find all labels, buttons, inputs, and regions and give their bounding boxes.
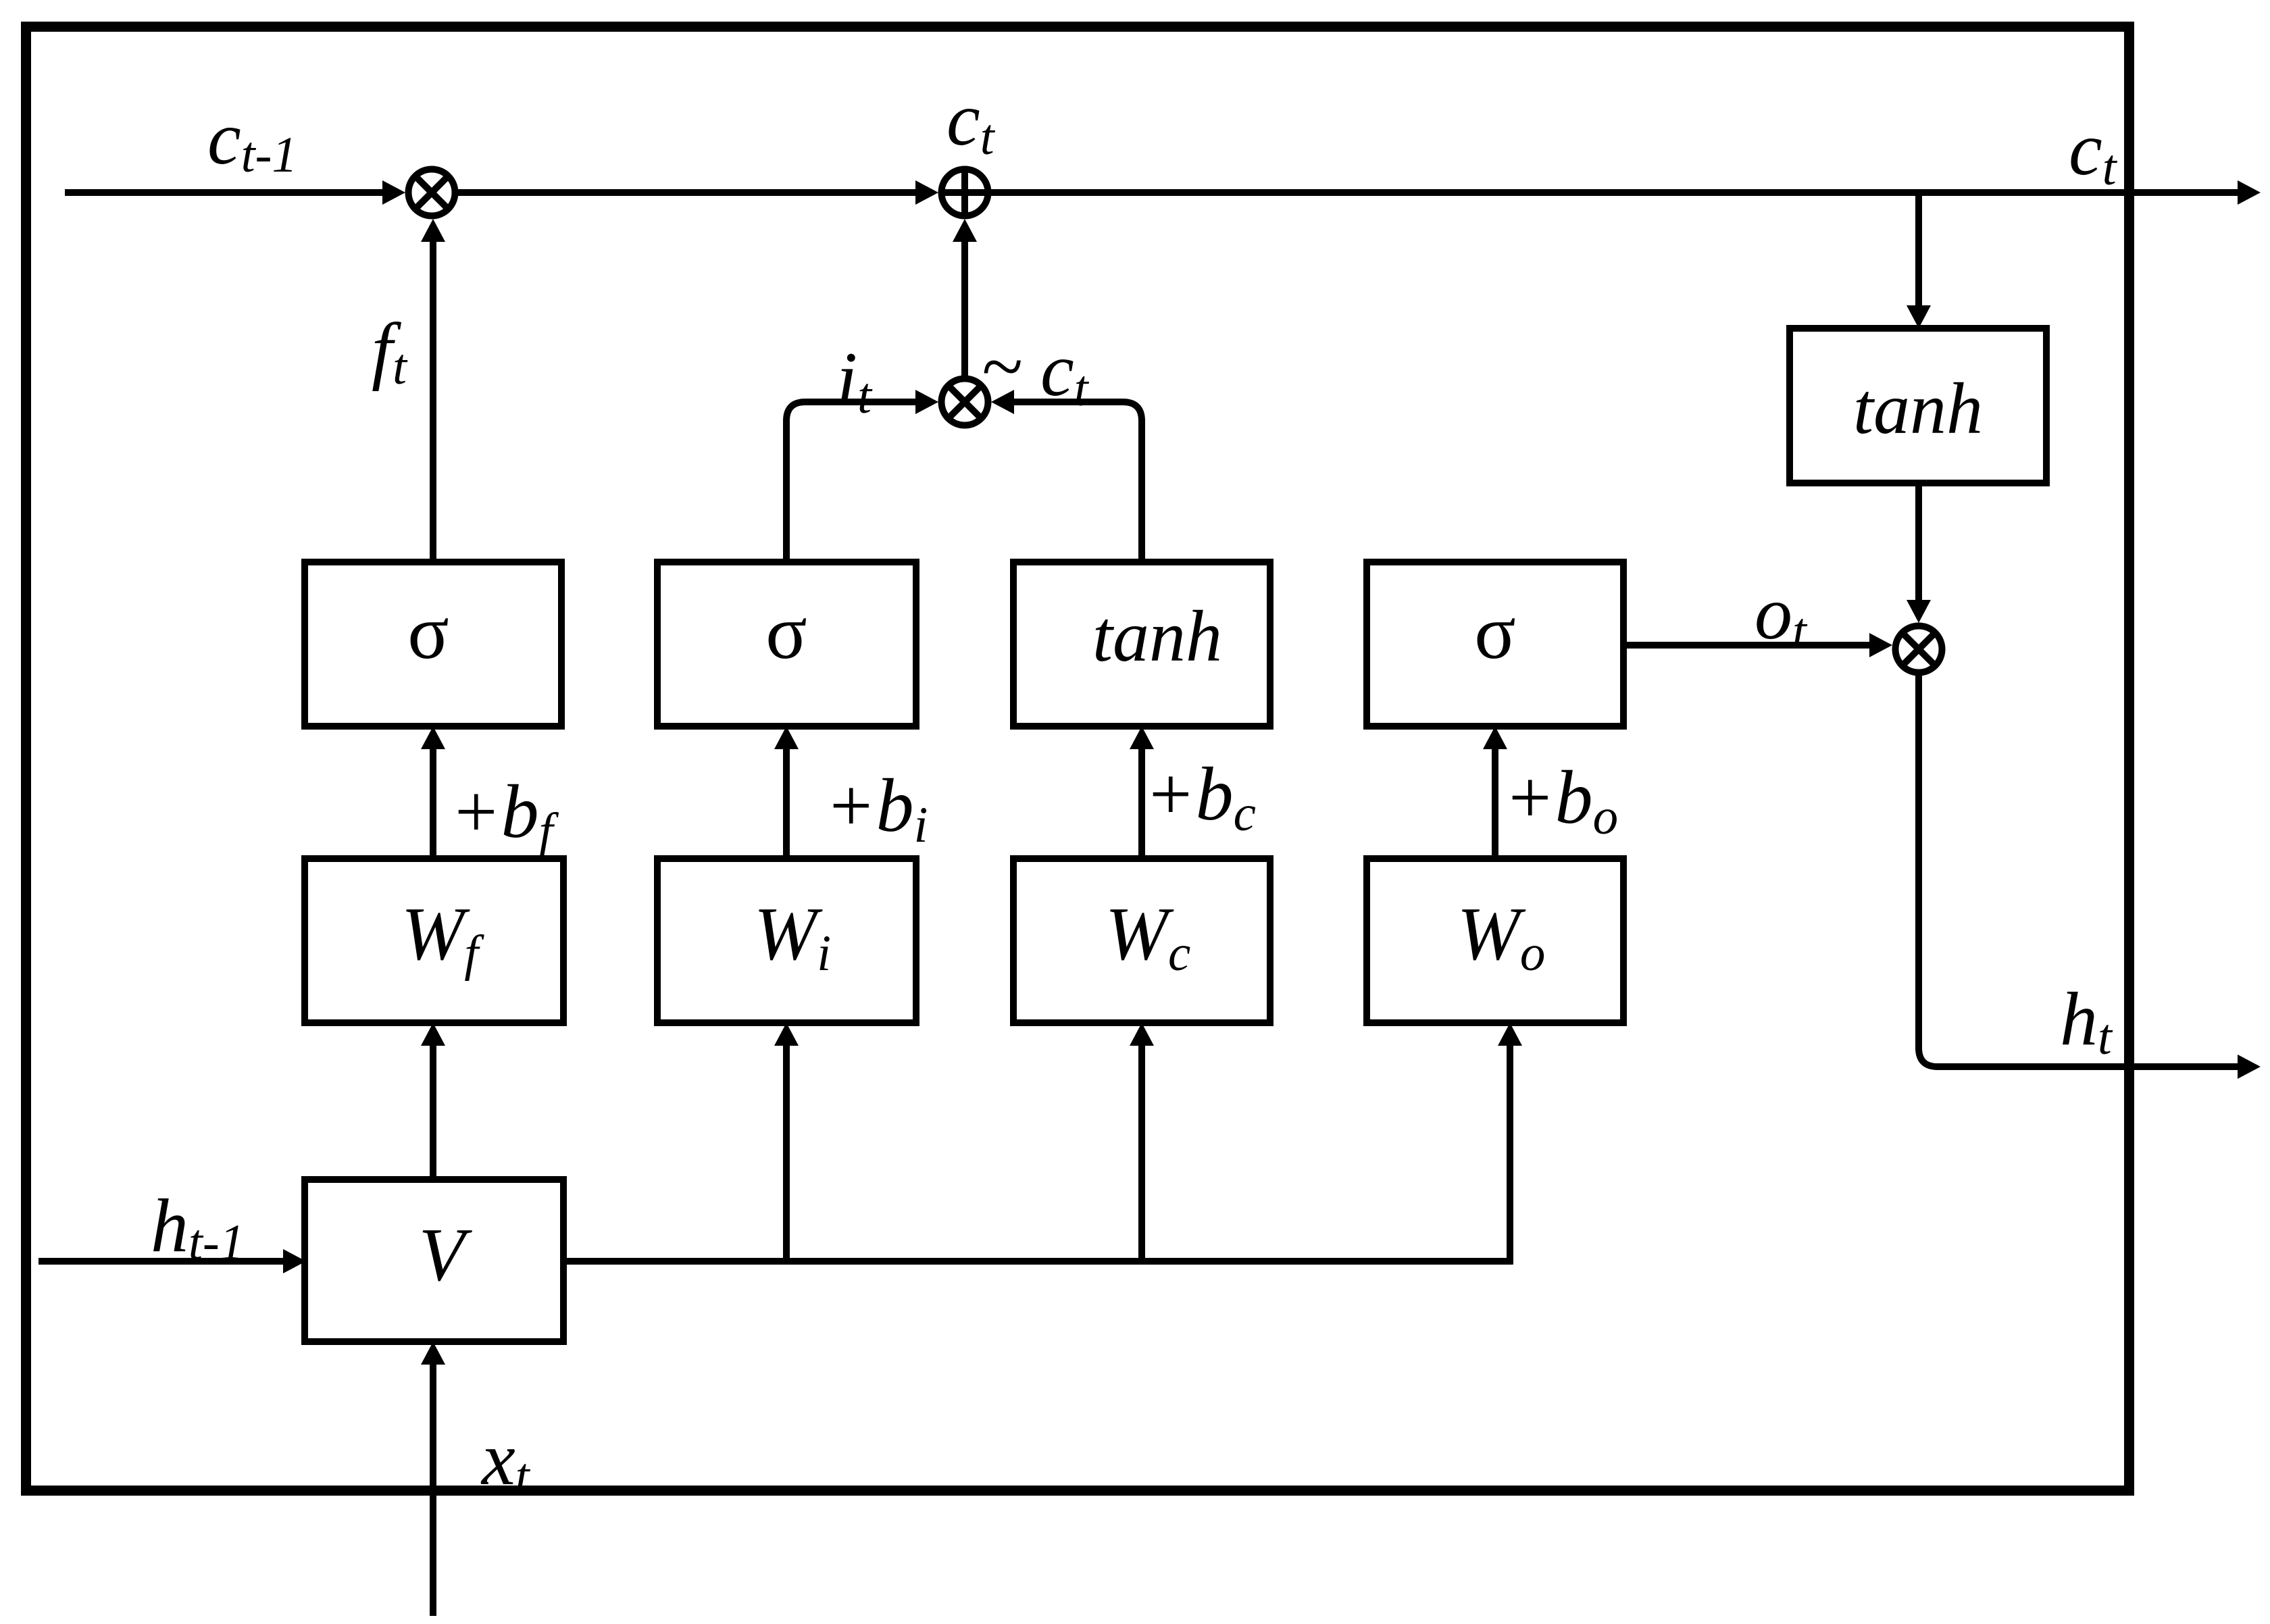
arrow W_f to sigma-f with +b_f (430, 746, 436, 859)
svg-text:ct-1: ct-1 (207, 97, 297, 183)
svg-text:Wi: Wi (754, 892, 831, 982)
wire i_t bent from sigma-i box top to X2 (786, 402, 918, 562)
svg-text:ht: ht (2060, 978, 2113, 1065)
svg-text:V: V (419, 1213, 473, 1297)
wire o_t from sigma-o to X3 (1623, 642, 1872, 649)
branch to W_i (783, 1043, 790, 1261)
tanh box candidate (1013, 562, 1270, 726)
svg-text:ct: ct (2069, 107, 2118, 196)
svg-text:Wo: Wo (1457, 892, 1546, 982)
arrow W_i to sigma-i with +b_i (783, 746, 790, 859)
svg-text:σ: σ (407, 589, 449, 675)
weight box W_o (1367, 859, 1623, 1023)
multiplier node X3 (output gate product) (1896, 626, 1942, 673)
svg-text:tanh: tanh (1853, 369, 1983, 449)
svg-text:tanh: tanh (1092, 597, 1222, 677)
wire h_t-1 input (39, 1258, 286, 1265)
branch to W_o (1507, 1043, 1513, 1265)
weight box W_f (305, 859, 563, 1023)
branch to W_c (1138, 1043, 1145, 1261)
svg-text:+bo: +bo (1504, 756, 1618, 845)
svg-text:Wc: Wc (1105, 892, 1191, 982)
svg-text:+bc: +bc (1144, 753, 1256, 842)
wire c_t branch down to tanh (1915, 193, 1922, 308)
svg-text:+bi: +bi (825, 764, 928, 853)
svg-text:~: ~ (981, 325, 1022, 409)
concat box V (305, 1179, 563, 1342)
weight box W_i (657, 859, 916, 1023)
wire c(t-1) input segment (65, 189, 385, 196)
svg-text:σ: σ (765, 589, 807, 675)
sigma box output gate (1367, 562, 1623, 726)
wire x_t input (430, 1362, 436, 1616)
arrow V to W_f (430, 1043, 436, 1179)
svg-text:ft: ft (372, 308, 408, 395)
svg-text:Wf: Wf (401, 892, 484, 982)
wire f_t arrow into X1 (430, 239, 436, 562)
tanh box output side (1790, 328, 2046, 483)
wire V output bus (563, 1258, 1513, 1265)
svg-text:ct: ct (947, 78, 996, 166)
wire candidate product to adder (961, 239, 968, 376)
adder node plus (cell state sum) (942, 170, 988, 216)
wire X1 to plus node (458, 189, 918, 196)
multiplier node X2 (input gate x candidate) (942, 379, 988, 426)
svg-text:+bf: +bf (450, 770, 559, 859)
wire h_t output (1919, 676, 2240, 1067)
sigma box forget gate (305, 562, 561, 726)
arrow W_c to tanh with +b_c (1138, 746, 1145, 859)
svg-text:ot: ot (1755, 572, 1808, 659)
weight box W_c (1013, 859, 1270, 1023)
wire ~c_t bent from tanh box top to X2 (1011, 402, 1142, 562)
svg-text:ct: ct (1040, 328, 1090, 417)
svg-text:xt: xt (480, 1417, 531, 1504)
arrow W_o to sigma-o with +b_o (1492, 746, 1498, 859)
arrow tanh to X3 (1915, 483, 1922, 603)
svg-text:it: it (836, 337, 873, 424)
sigma box input gate (657, 562, 916, 726)
svg-text:σ: σ (1474, 589, 1515, 675)
svg-text:ht-1: ht-1 (151, 1184, 245, 1271)
multiplier node X1 (forget gate product) (409, 170, 455, 216)
wire c_t output segment (991, 189, 2241, 196)
